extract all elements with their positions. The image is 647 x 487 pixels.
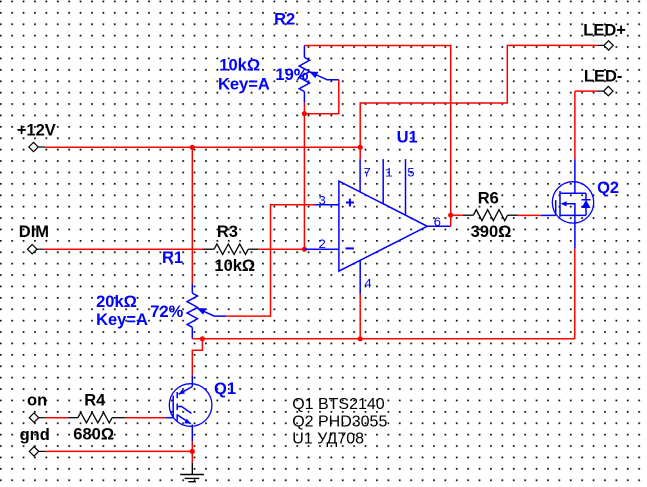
svg-text:LED-: LED- [584, 68, 623, 86]
node junction +12V/R1 [190, 145, 195, 150]
wire Q2 source down to rail [574, 249, 576, 339]
resistor R4 [68, 413, 125, 423]
wire output node to R6 [451, 214, 463, 216]
node junction gnd/emitter [190, 449, 195, 454]
svg-text:390Ω: 390Ω [471, 223, 512, 241]
wire R1 wiper to pin3 [226, 205, 314, 316]
svg-text:Key=A: Key=A [96, 311, 148, 329]
ground symbol [180, 463, 204, 482]
svg-text:DIM: DIM [19, 223, 49, 241]
svg-text:R3: R3 [217, 223, 238, 241]
wire bottom rail [192, 338, 575, 340]
wire pin7 red part [359, 147, 361, 159]
svg-text:72%: 72% [150, 303, 183, 321]
svg-text:U1: U1 [397, 129, 418, 147]
svg-text:R2: R2 [274, 11, 295, 29]
svg-text:4: 4 [364, 277, 372, 292]
wire pin4 red part [359, 294, 361, 339]
svg-text:680Ω: 680Ω [73, 426, 114, 444]
svg-text:LED+: LED+ [583, 22, 626, 40]
Q1 collector arrowhead [179, 389, 186, 394]
svg-text:20kΩ: 20kΩ [96, 293, 137, 311]
potentiometer R1 [187, 284, 226, 339]
terminal on [29, 413, 45, 422]
wire DIM to R3 [44, 248, 203, 250]
wire jog rail to Q1 collector [192, 339, 202, 376]
svg-text:10kΩ: 10kΩ [219, 57, 260, 75]
wire R2 bottom/wiper loop [304, 80, 338, 114]
R2 wiper arrowhead [309, 72, 318, 79]
svg-text:2: 2 [318, 237, 326, 252]
wire gnd to Q1 emitter [45, 450, 192, 452]
node junction +12V/pin7/LED+ [358, 145, 363, 150]
svg-text:19%: 19% [275, 66, 308, 84]
op-amp U1 [304, 159, 450, 294]
Q2 substrate arrowhead [561, 201, 567, 206]
Q2 body diode [582, 200, 591, 208]
wire LED+ branch (up from +12V node, right, up, to LED+ terminal) [360, 45, 597, 147]
node junction output/R2/R6 [448, 213, 453, 218]
node junction rail/pin4 [358, 336, 363, 341]
svg-text:R4: R4 [84, 391, 106, 409]
wire on to R4 [45, 417, 68, 419]
potentiometer R2 [299, 46, 339, 103]
svg-text:on: on [27, 391, 47, 409]
svg-text:U1 УД708: U1 УД708 [292, 430, 364, 447]
svg-text:Q2: Q2 [597, 179, 619, 197]
svg-text:+12V: +12V [17, 122, 56, 140]
wire +12V rail [45, 146, 360, 148]
node junction R2 bottom [302, 111, 307, 116]
terminal DIM [28, 245, 44, 254]
wire R2 top rail (pot top right, down to output node) [304, 46, 450, 216]
terminal +12V [29, 142, 45, 151]
svg-text:7: 7 [363, 165, 371, 180]
wire R1 top (+12V down to pot) [191, 147, 193, 284]
svg-text:gnd: gnd [20, 426, 50, 444]
svg-text:6: 6 [433, 215, 441, 230]
resistor R6 [463, 210, 518, 221]
transistor Q1 [166, 375, 212, 441]
wire R6 to Q2 gate [518, 214, 541, 216]
node junction pin2 [302, 247, 307, 252]
svg-text:R1: R1 [162, 249, 183, 267]
wire LED- to Q2 drain [575, 91, 597, 159]
svg-text:Q1 BTS2140: Q1 BTS2140 [292, 396, 385, 413]
wire R2 bottom to pin2 node [303, 114, 305, 250]
terminal LED+ [597, 41, 613, 50]
transistor Q2 (MOSFET) [541, 159, 594, 249]
resistor R3 [203, 244, 259, 254]
R1 wiper arrowhead [197, 308, 206, 315]
svg-text:Q1: Q1 [214, 380, 236, 398]
wire R3 to pin2 node [259, 248, 305, 250]
node junction rail/Q1 [200, 336, 205, 341]
svg-text:3: 3 [318, 193, 326, 208]
svg-text:10kΩ: 10kΩ [214, 257, 255, 275]
svg-text:5: 5 [407, 165, 415, 180]
svg-text:Q2 PHD3055: Q2 PHD3055 [292, 414, 387, 431]
svg-text:R6: R6 [478, 189, 499, 207]
svg-text:1: 1 [385, 165, 393, 180]
wire R4 to Q1 base [125, 417, 166, 419]
wire Q1 emitter to gnd node [191, 442, 193, 463]
terminal gnd [29, 447, 45, 456]
terminal LED- [597, 86, 613, 95]
Q1 emitter arrowhead [184, 419, 191, 424]
svg-text:Key=A: Key=A [218, 75, 270, 93]
wire output riser [450, 215, 452, 226]
